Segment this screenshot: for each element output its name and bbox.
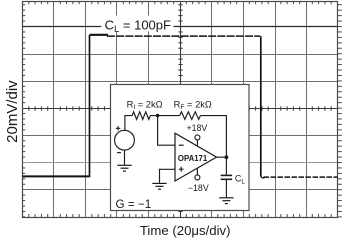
svg-text:OPA171: OPA171 bbox=[178, 154, 208, 163]
svg-text:+18V: +18V bbox=[187, 123, 208, 133]
svg-text:−18V: −18V bbox=[188, 183, 209, 193]
svg-text:20mV/div: 20mV/div bbox=[4, 80, 21, 143]
svg-text:G = −1: G = −1 bbox=[116, 198, 152, 211]
svg-text:Time (20μs/div): Time (20μs/div) bbox=[140, 223, 231, 238]
